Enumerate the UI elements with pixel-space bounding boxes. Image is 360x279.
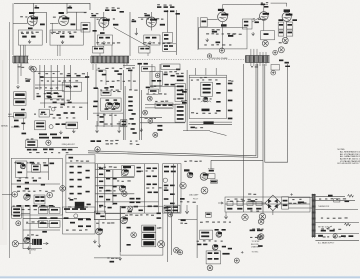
resistor R95b body — [18, 172, 23, 174]
label s4 r1 — [164, 11, 168, 13]
resistor R13 body — [120, 11, 124, 13]
ground bc left — [93, 240, 96, 243]
resistor R84 body — [216, 92, 220, 94]
box tone small — [121, 120, 127, 127]
wire midleft entry2 — [20, 64, 22, 76]
svg-text:GROUND PLANE: GROUND PLANE — [212, 57, 229, 60]
fuse F1 box — [334, 199, 340, 202]
label texture 42 — [197, 240, 223, 242]
wire bl v2 — [29, 205, 31, 254]
resistor R170 body — [96, 213, 100, 215]
label texture 22 — [104, 123, 130, 125]
label det top — [150, 86, 156, 88]
resistor R32 body — [292, 19, 297, 21]
wire ml h85 — [35, 84, 70, 86]
labels audio low2 — [16, 209, 54, 210]
wire if vbusB — [124, 86, 126, 140]
label ifcanA a — [177, 86, 184, 88]
wire bc h219 — [94, 219, 120, 221]
testpoint converter — [219, 48, 224, 53]
label alr f — [70, 222, 75, 224]
wire amp vleft — [97, 164, 99, 213]
resistor R111 body — [70, 172, 74, 174]
resistor R12 body — [112, 9, 116, 11]
label stage2 right top — [84, 12, 87, 13]
box ml sw2 — [66, 122, 78, 128]
label amp out c — [130, 201, 135, 203]
wire ps border1 — [315, 222, 359, 224]
label bcr lines b — [257, 230, 263, 232]
box ml can — [62, 82, 81, 91]
resistor R172 body — [127, 227, 131, 229]
resistor R174 body — [110, 261, 115, 263]
svg-text:A.C. MAINS SUPPLY: A.C. MAINS SUPPLY — [318, 242, 335, 245]
testpoint TP10 — [234, 258, 239, 263]
label asub2 b — [33, 169, 39, 171]
resistor R103 body — [17, 205, 22, 207]
resistor R142 label — [237, 208, 242, 210]
label bm c — [208, 258, 213, 260]
resistor R91b body — [49, 149, 54, 151]
label bcr left — [181, 219, 186, 221]
resistor R45 body — [48, 97, 52, 99]
labels ps bottomleft — [250, 237, 258, 238]
transformer T2 row a — [13, 208, 20, 210]
label coil L1 — [18, 66, 25, 68]
jack J13b — [174, 247, 180, 253]
jack J17 — [257, 235, 262, 240]
switch S7 label b — [143, 234, 154, 238]
label texture 15 — [49, 106, 83, 108]
resistor R162 label — [51, 209, 58, 211]
transistor V4 — [146, 17, 157, 27]
switch S7 frame a — [142, 225, 156, 232]
resistor amp c12 — [113, 195, 117, 197]
resistor amp r3 — [147, 176, 151, 178]
testpoint amp top — [95, 147, 100, 152]
switch S5 label — [211, 181, 217, 183]
svg-text:DIAL LAMP: DIAL LAMP — [189, 193, 199, 196]
resistor ifcan top2 body — [177, 80, 184, 82]
labels stage1 box — [21, 33, 33, 34]
transistor V6 — [260, 12, 270, 21]
wire amp h169 — [95, 169, 121, 171]
label alr h — [86, 225, 91, 227]
wire if h126 — [95, 125, 125, 127]
wire amp h201 — [95, 201, 158, 203]
resistor R163 box — [38, 221, 48, 228]
resistor R60 body — [165, 84, 169, 86]
labels bc bottom — [107, 257, 117, 258]
resistor R109 body — [70, 166, 74, 168]
label alr c — [80, 208, 86, 210]
wire gang2 drop b — [126, 63, 128, 65]
capacitor C61 body — [128, 211, 132, 213]
resistor R114b body — [78, 186, 82, 188]
label swlow a — [14, 120, 19, 122]
resistor R65 body — [114, 99, 118, 100]
wire amp v104 — [104, 164, 106, 213]
label texture 45 — [319, 198, 346, 200]
capacitor C14 body — [132, 21, 137, 23]
capacitor C41 body — [67, 75, 71, 77]
jack J16 — [207, 265, 213, 271]
resistor R15t body — [93, 30, 97, 32]
box det can — [148, 89, 158, 94]
label adrv d — [40, 200, 44, 202]
box audio sub tall — [16, 161, 27, 178]
wire ps sec2 — [315, 200, 355, 202]
capacitor C49 body — [146, 87, 150, 89]
resistor R34 box — [287, 22, 293, 29]
resistor amp r7 — [148, 192, 152, 194]
labels stage2 box — [56, 33, 71, 34]
resistor R21b body — [145, 48, 149, 50]
labels bl row1 top — [39, 206, 55, 207]
resistor amp r9 — [148, 206, 152, 208]
resistor R173 body — [127, 244, 131, 246]
testpoint TP5 — [333, 234, 337, 238]
resistor R64 body — [106, 99, 110, 100]
switch S5 box — [211, 180, 218, 183]
wire bus mid 2 — [88, 64, 258, 157]
svg-text:AERIAL: AERIAL — [1, 124, 8, 127]
box bc — [120, 206, 163, 255]
box osc coil can — [201, 82, 213, 96]
crystal X3 body — [27, 144, 35, 146]
resistor R22c body — [164, 45, 168, 47]
wire amp h185 — [95, 185, 121, 187]
label texture 4 — [53, 31, 77, 33]
label osc bottom2 — [195, 127, 203, 128]
resistor R36 label — [287, 32, 292, 34]
wire stage3 gang — [99, 53, 101, 56]
labels bc switch right — [157, 227, 162, 228]
ground bcr top — [185, 210, 189, 214]
switch S1 box — [14, 92, 26, 99]
resistor R108 body — [69, 157, 74, 159]
jack J8 — [201, 187, 208, 194]
wire ml v1 — [44, 65, 46, 108]
resistor R56 body — [157, 80, 161, 82]
resistor R27 body — [244, 25, 248, 27]
label det can — [150, 90, 157, 92]
resistor amp r4 — [153, 176, 157, 178]
box bc left small — [94, 211, 105, 220]
label texture 38 — [27, 234, 38, 236]
label amp2 k — [164, 207, 169, 209]
wire amp h177 — [95, 177, 134, 179]
resistor R21 body — [152, 37, 156, 39]
resistor R115 body — [70, 193, 74, 195]
resistor R142 box — [237, 202, 243, 206]
wire if h86 — [150, 86, 180, 88]
wire gang3 lead 6 — [265, 52, 267, 66]
wire osc h130 — [183, 129, 210, 131]
label texture 13 — [41, 80, 78, 82]
resistor R77 body — [157, 104, 161, 106]
capacitor C46 body — [128, 70, 132, 72]
wire bridge down — [272, 211, 274, 215]
labels bc top — [99, 206, 106, 207]
resistor amp r8 — [154, 192, 158, 194]
resistor amp c6 — [113, 178, 117, 180]
label mlcanA c — [47, 96, 52, 98]
resistor R95 body — [17, 162, 22, 164]
resistor R72 body — [132, 113, 136, 115]
wire branch switch — [211, 159, 263, 161]
wire ml v4 — [70, 65, 72, 100]
box osc left — [242, 19, 252, 29]
resistor R86e body — [228, 118, 233, 120]
labels amp top row1 — [105, 140, 118, 142]
resistor R86 body — [228, 83, 233, 85]
labels amp top row2 — [106, 143, 118, 144]
testpoint dial line — [207, 54, 211, 58]
label texture 21 — [97, 114, 117, 115]
label tone b — [122, 124, 126, 126]
testpoint TP8 — [168, 212, 173, 217]
wire V7 down — [286, 21, 288, 37]
transistor Q0 small — [51, 107, 55, 111]
wire osc up a — [195, 68, 197, 75]
label ifcanA c — [177, 94, 184, 96]
resistor R55 body — [152, 80, 156, 82]
label adrv a — [35, 196, 39, 198]
resistor amp c1 — [99, 168, 103, 170]
resistor R91 body — [43, 149, 48, 151]
box if amp labels — [101, 91, 111, 96]
transformer T2 row c — [13, 215, 20, 217]
wire bl h218 — [23, 217, 90, 219]
ground if b — [118, 129, 121, 132]
wire bus mid 1 — [88, 64, 256, 156]
wire stage4 drop — [150, 12, 152, 31]
jack J14 — [242, 214, 248, 220]
label tone a — [122, 121, 126, 123]
wire audio left stub — [2, 194, 12, 196]
label texture 20 — [146, 93, 166, 94]
jack J7 — [180, 183, 186, 189]
jack J11 — [12, 241, 18, 247]
label ps row2 b — [330, 230, 335, 232]
svg-text:CHANGER: CHANGER — [251, 245, 261, 248]
capacitor C22 body — [228, 35, 233, 37]
capacitor C36 body — [26, 80, 30, 82]
capacitor C48 body — [110, 86, 114, 88]
scan edge shading left — [0, 50, 7, 245]
transistor Q9 — [200, 173, 208, 181]
ground ml f — [59, 131, 62, 134]
resistor R23b body — [216, 42, 221, 44]
label grid V2 — [59, 12, 64, 14]
wire gang3 lead 3 — [256, 49, 258, 66]
label texture 6 — [141, 18, 164, 20]
label bcramp a — [201, 232, 209, 234]
resistor R85 body — [216, 101, 220, 103]
resistor R74c body — [133, 132, 137, 134]
label texture 36 — [184, 160, 201, 162]
label amp2 i — [164, 198, 169, 200]
switch S4 label — [209, 170, 214, 172]
wire stage2 gang tie2 — [57, 45, 59, 56]
switch S1 label — [15, 93, 25, 96]
label texture 29 — [70, 160, 89, 161]
wire ps h208 — [289, 207, 313, 209]
labels bplus top — [227, 199, 257, 201]
transistor V5 — [218, 12, 229, 22]
switch ml label b — [36, 126, 44, 128]
wire V5 base — [207, 19, 217, 21]
resistor amp r2 — [153, 168, 157, 170]
resistor R20b body — [140, 48, 144, 50]
resistor R140 body — [180, 198, 185, 200]
wire bl h230 — [23, 229, 60, 231]
box stage2 lower — [50, 30, 83, 45]
label amp sub r2 — [137, 171, 141, 173]
wire audio v48 — [47, 158, 49, 180]
label bl mid b — [50, 217, 57, 219]
resistor R35 box — [278, 30, 284, 36]
wire stage1 frame — [12, 3, 14, 55]
resistor R71 body — [128, 109, 132, 111]
wire ml v34 — [33, 70, 35, 100]
resistor R63b body — [93, 106, 97, 108]
wire bl h248 — [23, 248, 42, 250]
wire ml h103 — [40, 102, 88, 104]
label texture 39 — [96, 222, 114, 224]
box corner small — [271, 65, 280, 71]
transformer T1 core line a — [312, 194, 314, 238]
resistor R18 body — [170, 6, 174, 8]
wire stage2 gang tie — [59, 45, 61, 56]
wire node stage1 out — [34, 12, 47, 14]
wire osc up c — [215, 68, 217, 75]
capacitor C38 body — [21, 123, 25, 125]
resistor R17b body — [94, 48, 98, 50]
resistor R113c body — [86, 177, 90, 179]
label texture 33 — [99, 190, 116, 191]
box osc section — [189, 75, 226, 118]
resistor R67 body — [112, 108, 116, 110]
capacitor C40 body — [40, 76, 44, 78]
ground stage2b — [61, 40, 64, 43]
resistor R62 body — [94, 87, 98, 89]
label texture 50 — [252, 228, 263, 229]
label bcramp b — [201, 235, 209, 237]
resistor R26 body — [244, 21, 248, 23]
transistor Q4 — [20, 164, 25, 169]
label swlow c — [22, 133, 27, 135]
wire top bus — [14, 3, 90, 10]
resistor R78 body — [163, 104, 167, 106]
resistor R36 box — [287, 30, 293, 36]
label texture 49 — [250, 210, 259, 211]
wire stage1 gang lead 2 — [22, 45, 24, 56]
resistor R51 body — [57, 114, 61, 116]
jack J6 — [122, 191, 127, 196]
label amp2 g — [164, 189, 169, 191]
resistor R81 body — [182, 102, 187, 104]
resistor amp r1 — [147, 168, 151, 170]
wire stage2 drop — [66, 9, 68, 14]
resistor R80 body — [182, 91, 187, 93]
switch S4 box — [208, 174, 216, 179]
transformer T1 primary winding — [312, 195, 316, 237]
resistor R96 body — [30, 162, 35, 164]
wire V2 gnd stem — [51, 23, 53, 30]
resistor R9 body — [83, 28, 88, 30]
resistor R17 body — [164, 6, 168, 8]
label amp2 f — [170, 185, 175, 187]
box ml can A — [45, 91, 64, 99]
jack J3 — [143, 110, 148, 115]
labels ml mid2 — [50, 99, 70, 101]
label texture 31 — [98, 166, 116, 168]
label mains dark — [318, 235, 323, 237]
labels ml top — [38, 73, 85, 75]
label ifcanB d — [177, 118, 184, 120]
resistor R161 label — [40, 209, 47, 211]
resistor R33 label — [279, 24, 283, 26]
ground ml g — [72, 129, 75, 132]
label amp top b — [97, 140, 102, 142]
wire diag v3 — [114, 28, 150, 48]
transistor Q12 — [120, 217, 128, 224]
label bctr b — [173, 206, 179, 208]
ground stage1 — [28, 40, 31, 43]
labels alr bottom — [66, 229, 88, 231]
label ifcanB a — [177, 106, 184, 108]
tuning gang link dash — [28, 59, 90, 61]
wire v3 gnd stem — [135, 28, 137, 32]
capacitor C45 body — [114, 70, 118, 72]
box audio sub2 — [32, 164, 41, 172]
wire amp2 v — [172, 164, 174, 213]
label bl mid c — [64, 217, 69, 219]
wire if v112b — [111, 113, 113, 127]
resistor amp c2 — [99, 174, 103, 176]
wire stage1 right vert — [46, 13, 48, 44]
resistor R68 body — [128, 96, 132, 98]
resistor R86d body — [228, 110, 233, 112]
resistor R97 body — [44, 165, 49, 167]
resistor R57 body — [164, 74, 168, 76]
dark bar osc bottom — [203, 121, 213, 124]
wire gang3 lead 2 — [253, 49, 255, 66]
label texture 5 — [97, 18, 115, 19]
label texture 16 — [34, 114, 53, 115]
label texture 44 — [289, 202, 307, 204]
resistor R187 body — [222, 229, 226, 231]
resistor amp c4 — [99, 181, 103, 183]
switch S2 label — [15, 101, 25, 104]
resistor R81 label — [181, 100, 187, 101]
labels ml mid — [37, 93, 60, 94]
transistor Q13 — [216, 232, 222, 238]
svg-text:SPKR: SPKR — [31, 250, 37, 252]
resistor R22a body — [164, 34, 168, 36]
label osccan a — [203, 84, 211, 86]
box gang2 below — [141, 67, 155, 72]
box ml sw1 — [35, 121, 46, 130]
resistor R76c body — [157, 129, 162, 131]
label s4 r3 — [176, 13, 180, 15]
resistor R75 body — [100, 116, 104, 118]
resistor R2 body — [22, 36, 27, 38]
ground bc q11 — [98, 244, 101, 247]
resistor R110 body — [78, 166, 82, 168]
